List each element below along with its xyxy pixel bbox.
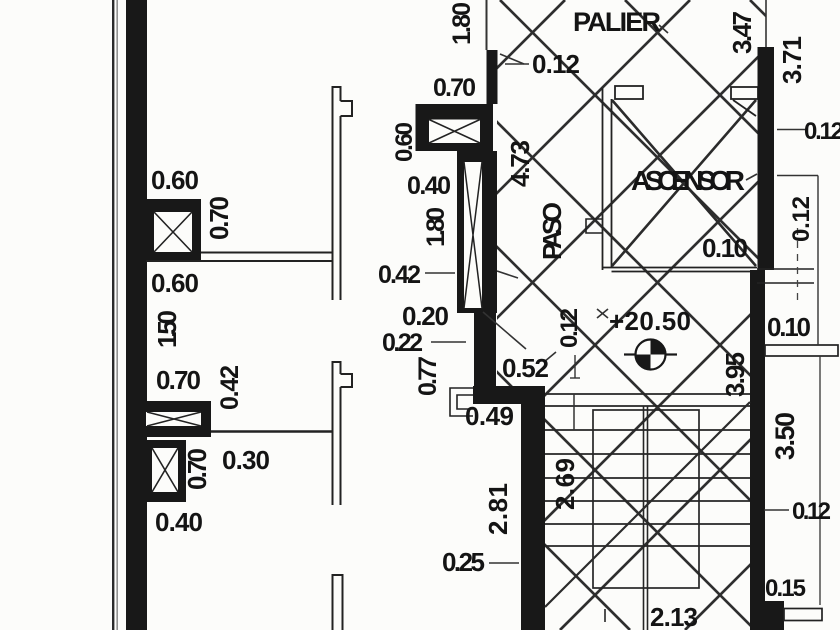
svg-text:2.81: 2.81 [483,483,513,535]
svg-text:0.77: 0.77 [414,356,442,396]
svg-text:PASO: PASO [537,202,567,260]
svg-text:0.12: 0.12 [804,118,840,145]
svg-text:0.42: 0.42 [378,261,421,289]
svg-text:0.22: 0.22 [382,329,423,357]
svg-text:0.70: 0.70 [204,196,234,240]
svg-text:2.69: 2.69 [550,458,580,510]
svg-text:0.52: 0.52 [502,353,549,383]
svg-text:1.80: 1.80 [448,2,476,45]
svg-text:0.12: 0.12 [556,308,583,348]
svg-text:+20.50: +20.50 [609,306,691,336]
svg-text:1.50: 1.50 [152,310,182,348]
svg-text:3.71: 3.71 [777,36,807,84]
svg-text:0.70: 0.70 [156,365,201,395]
svg-text:3.50: 3.50 [770,412,800,460]
svg-text:0.60: 0.60 [151,268,199,298]
svg-text:2.13: 2.13 [650,602,698,630]
svg-text:0.25: 0.25 [442,547,485,577]
svg-text:0.40: 0.40 [407,172,451,200]
svg-text:ASCENSOR: ASCENSOR [631,165,745,196]
svg-text:0.49: 0.49 [465,401,514,431]
svg-text:PALIER: PALIER [573,7,661,37]
svg-text:0.60: 0.60 [151,165,199,195]
svg-text:0.10: 0.10 [767,312,811,342]
svg-text:0.15: 0.15 [765,575,806,602]
svg-text:4.73: 4.73 [505,140,535,187]
svg-text:0.60: 0.60 [391,122,418,162]
svg-text:3.47: 3.47 [727,11,757,54]
svg-text:0.12: 0.12 [792,498,831,525]
svg-text:1.80: 1.80 [422,207,450,247]
svg-text:0.20: 0.20 [402,301,449,331]
svg-text:0.42: 0.42 [216,365,244,410]
svg-text:3.95: 3.95 [720,352,750,397]
svg-text:0.70: 0.70 [182,448,212,490]
svg-text:0.10: 0.10 [702,233,748,263]
svg-text:0.12: 0.12 [788,196,815,242]
svg-text:0.12: 0.12 [532,49,580,79]
svg-text:0.40: 0.40 [155,507,203,537]
svg-text:0.70: 0.70 [433,74,476,102]
svg-text:0.30: 0.30 [222,445,270,475]
